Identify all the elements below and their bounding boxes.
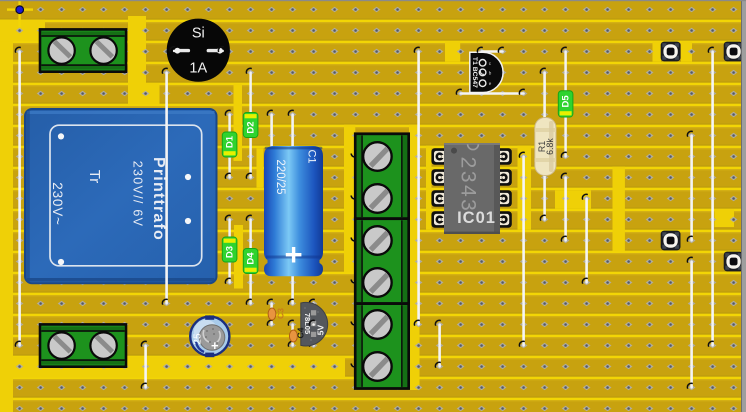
svg-text:C4: C4: [296, 327, 306, 338]
wire: [477, 47, 504, 53]
svg-text:Si: Si: [192, 26, 205, 42]
window edge right: [742, 0, 746, 412]
wire: [582, 194, 588, 283]
svg-text:5V: 5V: [316, 324, 326, 335]
svg-text:+: +: [211, 338, 219, 353]
diode D5: [558, 47, 573, 158]
window edge top: [0, 0, 746, 1]
capacitor C3: [267, 299, 285, 326]
capacitor C4: [288, 320, 297, 347]
trimmer potentiometer: [190, 315, 229, 357]
svg-text:D5: D5: [561, 95, 572, 108]
svg-text:C3: C3: [276, 308, 286, 319]
wire: [141, 341, 147, 389]
IC IC01 (2343, DIP-8): [431, 143, 511, 234]
wire: [414, 47, 420, 326]
resistor R1 6.8k: [535, 68, 556, 221]
diode D2: [243, 68, 258, 179]
wire: [435, 320, 441, 368]
terminal block X2 (2-pole, bottom-left): [40, 324, 126, 366]
wire: [687, 131, 693, 242]
diode D1: [222, 110, 237, 179]
capacitor C1 (220/25 electrolytic): [264, 110, 323, 304]
wire: [519, 152, 525, 346]
transistor T1 BC547: [470, 52, 503, 92]
origin crosshair: [7, 0, 33, 27]
svg-text:D2: D2: [246, 121, 257, 133]
solder pad: [724, 42, 744, 62]
svg-text:25: 25: [193, 333, 204, 345]
svg-text:220/25: 220/25: [274, 159, 286, 194]
solder pad: [661, 42, 681, 62]
svg-text:230V// 6V: 230V// 6V: [130, 161, 144, 228]
diode D3: [222, 215, 237, 283]
svg-text:6.8k: 6.8k: [545, 138, 555, 155]
diode D4: [243, 215, 258, 304]
svg-text:D4: D4: [246, 252, 257, 265]
svg-text:IC01: IC01: [457, 209, 496, 227]
wire: [162, 68, 168, 304]
svg-text:2343: 2343: [457, 157, 480, 214]
wire: [708, 47, 714, 347]
solder pad: [661, 231, 681, 251]
wire: [456, 89, 524, 95]
wire: [687, 257, 693, 389]
terminal block X3 (6-pole): [351, 134, 408, 389]
svg-text:D1: D1: [225, 135, 236, 148]
origin blue hole marker: [16, 6, 24, 14]
svg-text:e: e: [489, 81, 492, 86]
solder pad: [724, 252, 744, 272]
svg-text:Printtrafo: Printtrafo: [150, 157, 167, 241]
svg-text:T1 BC547: T1 BC547: [471, 57, 478, 88]
wire: [561, 173, 567, 242]
svg-text:b: b: [489, 70, 492, 75]
wire: [15, 47, 21, 347]
svg-text:1A: 1A: [189, 61, 207, 77]
svg-text:C1: C1: [306, 149, 318, 163]
transformer Tr (Printtrafo 230V/6V): [25, 109, 217, 283]
voltage regulator 5V (78L05): [301, 299, 328, 347]
terminal block X1 (2-pole, top-left): [40, 29, 126, 71]
svg-text:230V~: 230V~: [50, 182, 65, 225]
svg-text:D3: D3: [225, 246, 236, 258]
fuse Si 1A: [167, 19, 230, 82]
svg-text:Tr: Tr: [86, 170, 103, 184]
